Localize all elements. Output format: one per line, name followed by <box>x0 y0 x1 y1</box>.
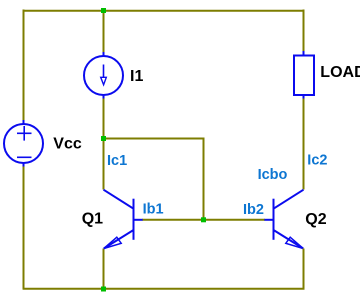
wire middle vertical <box>203 138 205 221</box>
node junction mid <box>101 136 106 141</box>
wire I1 bottom <box>103 99 105 140</box>
svg-text:Q2: Q2 <box>305 211 326 228</box>
wire top rail <box>23 10 305 12</box>
svg-text:I1: I1 <box>130 68 143 85</box>
svg-text:Icbo: Icbo <box>258 167 288 183</box>
node junction base <box>201 217 206 222</box>
wire right rail top <box>303 10 305 52</box>
resistor LOAD <box>294 51 314 99</box>
svg-text:Ic2: Ic2 <box>307 153 327 169</box>
node junction top <box>101 8 106 13</box>
wire Q1 collector <box>103 138 105 190</box>
wire bottom rail <box>23 288 305 290</box>
current source I1 <box>84 52 123 99</box>
svg-text:Ib1: Ib1 <box>143 201 164 217</box>
node junction bottom <box>101 287 106 292</box>
wire Q1 emitter <box>103 249 105 290</box>
transistor Q2 <box>264 190 303 249</box>
svg-text:Q1: Q1 <box>82 210 103 227</box>
wire I1 top <box>103 11 105 53</box>
wire Q2 emitter <box>303 249 305 290</box>
wire left rail upper <box>23 10 25 121</box>
wire right rail mid <box>303 99 305 190</box>
wire middle horizontal <box>104 138 205 140</box>
svg-text:Vcc: Vcc <box>53 136 82 153</box>
svg-text:Ic1: Ic1 <box>107 153 127 169</box>
svg-text:LOAD: LOAD <box>320 64 360 81</box>
wire left rail lower <box>23 167 25 290</box>
transistor Q1 <box>104 190 143 249</box>
wire base rail <box>142 219 265 221</box>
svg-text:Ib2: Ib2 <box>243 202 264 218</box>
voltage source Vcc <box>4 120 43 167</box>
